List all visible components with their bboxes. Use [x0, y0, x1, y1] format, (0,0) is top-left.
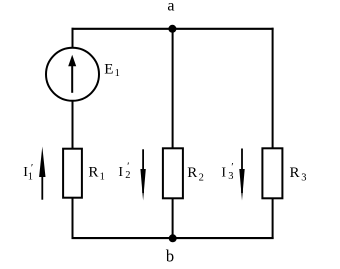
- source E1 arrow head: [68, 55, 76, 67]
- wire top horizontal a-rail: [72, 28, 274, 30]
- svg-text:b: b: [166, 247, 174, 264]
- svg-text:R: R: [187, 165, 197, 181]
- svg-text:R: R: [88, 165, 98, 181]
- current arrow I1 shaft (points up): [41, 160, 43, 200]
- resistor R3 body: [262, 148, 282, 198]
- svg-text:I: I: [221, 166, 226, 181]
- wire right branch top (top rail to resistor R3): [272, 28, 274, 149]
- wire right branch bottom (resistor R3 to bottom rail): [272, 198, 274, 239]
- current arrow I2 head (down): [140, 169, 145, 201]
- resistor R1 body: [63, 149, 82, 198]
- wire left branch bottom (resistor R1 to bottom rail): [72, 198, 74, 240]
- svg-text:′: ′: [31, 162, 33, 174]
- current arrow I3 head (down): [239, 169, 244, 201]
- svg-text:I: I: [118, 165, 123, 180]
- wire middle branch top (node a to resistor R2): [172, 29, 174, 149]
- source E1 circle: [46, 48, 99, 101]
- node b junction dot: [169, 234, 177, 242]
- svg-text:E: E: [104, 62, 113, 78]
- svg-text:1: 1: [100, 171, 105, 182]
- svg-text:R: R: [290, 165, 300, 181]
- svg-text:2: 2: [199, 172, 204, 183]
- svg-text:′: ′: [127, 160, 129, 172]
- wire middle branch bottom (resistor R2 to node b): [172, 198, 174, 239]
- source E1 arrow shaft: [71, 63, 73, 93]
- resistor R2 body: [163, 148, 183, 198]
- current arrow I1 head (up): [39, 147, 45, 178]
- node a junction dot: [168, 25, 176, 33]
- svg-text:a: a: [167, 0, 174, 14]
- svg-text:3: 3: [301, 172, 306, 183]
- wire left branch middle (source E1 to resistor R1): [72, 100, 74, 149]
- wire bottom horizontal b-rail: [72, 237, 274, 239]
- current arrow I3 shaft (points down): [241, 149, 243, 194]
- current arrow I2 shaft (points down): [142, 149, 144, 193]
- svg-text:′: ′: [231, 161, 233, 173]
- wire left branch top (top rail to source E1): [72, 28, 74, 49]
- svg-text:1: 1: [115, 68, 120, 79]
